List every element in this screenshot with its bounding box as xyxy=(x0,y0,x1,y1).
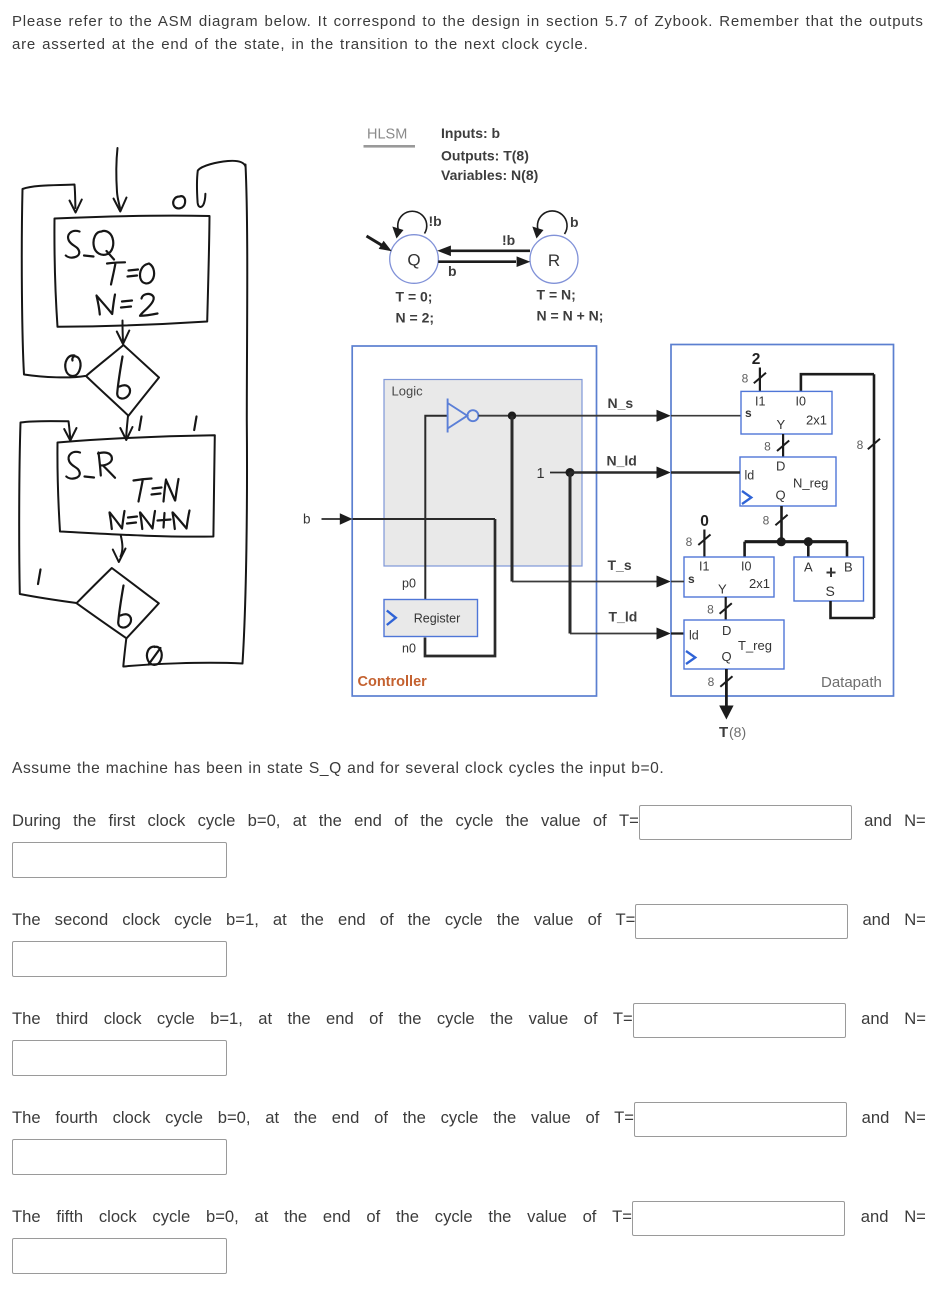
label handwritten S_Q xyxy=(66,231,80,258)
wire N_s from NOT output xyxy=(478,415,664,417)
label handwritten N=N+N xyxy=(110,511,125,529)
svg-text:Variables: N(8): Variables: N(8) xyxy=(441,167,538,183)
svg-text:R: R xyxy=(548,251,560,270)
wire bus horizontal xyxy=(745,540,847,543)
svg-text:8: 8 xyxy=(708,675,715,689)
label handwritten o top right xyxy=(173,196,185,208)
wire N_ld into N_reg ld xyxy=(671,471,740,473)
svg-text:b: b xyxy=(570,214,579,230)
svg-text:N_ld: N_ld xyxy=(607,453,637,469)
svg-text:HLSM: HLSM xyxy=(367,127,407,143)
node Controller box xyxy=(352,346,596,696)
svg-text:2x1: 2x1 xyxy=(749,576,770,591)
node state box S_R xyxy=(57,435,214,536)
wire T_s into mux2 s xyxy=(671,581,684,583)
wire bus to adder A xyxy=(807,542,810,557)
svg-text:b: b xyxy=(303,512,311,527)
wire left feedback loop diamond2 to S_R xyxy=(19,421,76,603)
label handwritten 0 bottom exit xyxy=(147,647,162,665)
node decision diamond2 b xyxy=(77,568,159,638)
wire N_s into mux1 s xyxy=(671,415,741,417)
svg-text:S: S xyxy=(826,583,835,599)
svg-text:8: 8 xyxy=(686,535,693,549)
svg-text:Outputs: T(8): Outputs: T(8) xyxy=(441,148,529,164)
svg-text:I1: I1 xyxy=(755,395,765,409)
svg-text:T = N;: T = N; xyxy=(537,287,576,303)
svg-text:p0: p0 xyxy=(402,577,416,591)
node junction bus left xyxy=(777,537,786,546)
label handwritten N=2 xyxy=(97,295,116,315)
svg-text:(8): (8) xyxy=(729,724,746,740)
svg-text:Y: Y xyxy=(718,582,727,597)
wire mux2 Y to T_reg D xyxy=(671,597,726,634)
node decision diamond1 b xyxy=(86,345,159,416)
svg-text:!b: !b xyxy=(429,213,442,229)
label handwritten 1 left of diamond2 xyxy=(38,570,41,585)
wire Q self-loop !b xyxy=(398,211,427,233)
svg-text:1: 1 xyxy=(537,466,545,482)
wire N_reg Q down to bus xyxy=(780,506,783,540)
wire S_R to diamond2 xyxy=(121,536,123,557)
wire b loop to register n0 xyxy=(425,519,495,656)
svg-text:D: D xyxy=(776,459,785,474)
svg-text:A: A xyxy=(804,560,813,575)
svg-text:I0: I0 xyxy=(741,560,751,574)
svg-text:Q: Q xyxy=(407,251,420,270)
wire initial arrow into Q xyxy=(367,236,384,246)
node Logic block xyxy=(384,380,582,567)
svg-text:Register: Register xyxy=(414,612,461,626)
node Datapath box xyxy=(671,345,894,697)
wire T_s horizontal xyxy=(512,581,664,583)
svg-text:T_s: T_s xyxy=(608,557,632,573)
wire transition R to Q !b xyxy=(451,250,531,253)
node state Register xyxy=(384,600,478,637)
svg-text:I1: I1 xyxy=(699,560,709,574)
wire N_ld horizontal xyxy=(570,471,664,474)
svg-text:ld: ld xyxy=(745,469,755,483)
svg-text:Y: Y xyxy=(777,417,786,432)
wire entry arrow into S_Q xyxy=(116,148,120,208)
svg-text:I0: I0 xyxy=(796,395,806,409)
op register T_reg xyxy=(684,620,784,669)
svg-text:ld: ld xyxy=(689,629,699,643)
svg-text:N = 2;: N = 2; xyxy=(396,309,435,325)
svg-text:Controller: Controller xyxy=(358,674,428,690)
wire bus to mux2 I0 xyxy=(743,542,746,557)
label handwritten b in diamond2 xyxy=(118,586,131,628)
wire adder S to feedback xyxy=(831,601,875,618)
svg-text:0: 0 xyxy=(700,513,709,530)
wire right tall loop diamond2-0 up into S_Q xyxy=(124,165,248,667)
svg-text:Q: Q xyxy=(776,488,786,503)
label handwritten 1 right below diamond1 xyxy=(194,417,196,431)
wire mux1 Y to N_reg D xyxy=(782,434,784,457)
op mux2 2x1 xyxy=(684,557,774,597)
svg-text:!b: !b xyxy=(502,232,515,248)
wire diamond1-1 to S_R xyxy=(126,416,128,436)
svg-text:N = N + N;: N = N + N; xyxy=(537,308,604,324)
label handwritten b in diamond1 xyxy=(117,357,130,399)
node junction N_s xyxy=(508,412,516,420)
svg-text:+: + xyxy=(826,563,837,583)
op register N_reg xyxy=(740,457,836,506)
label handwritten 1 below diamond1 xyxy=(139,417,141,431)
svg-text:8: 8 xyxy=(764,440,771,454)
wire bus to adder B xyxy=(846,542,849,557)
svg-text:N_s: N_s xyxy=(608,395,634,411)
svg-text:n0: n0 xyxy=(402,642,416,656)
svg-text:Q: Q xyxy=(722,649,732,664)
svg-text:T: T xyxy=(719,724,728,741)
op NOT gate U1 xyxy=(448,399,468,433)
wire T_reg Q output T(8) xyxy=(725,669,728,708)
svg-text:2: 2 xyxy=(752,351,761,368)
wire p0 register output to NOT input xyxy=(425,416,447,599)
wire T_ld horizontal xyxy=(570,633,664,635)
op mux1 2x1 xyxy=(741,391,832,434)
svg-text:B: B xyxy=(844,560,853,575)
svg-text:N_reg: N_reg xyxy=(793,476,828,491)
svg-text:T_ld: T_ld xyxy=(609,609,638,625)
svg-text:Inputs: b: Inputs: b xyxy=(441,125,500,141)
svg-text:T_reg: T_reg xyxy=(738,638,772,653)
label handwritten T=0 xyxy=(107,262,125,284)
wire feedback into mux1 I0 xyxy=(801,374,874,391)
node junction N_ld xyxy=(566,468,575,477)
svg-text:8: 8 xyxy=(707,603,714,617)
svg-text:T = 0;: T = 0; xyxy=(396,289,433,305)
svg-text:s: s xyxy=(688,572,695,586)
svg-text:8: 8 xyxy=(763,514,770,528)
wire left feedback loop diamond1 to S_Q xyxy=(22,185,85,378)
svg-text:Datapath: Datapath xyxy=(821,674,882,691)
wire feedback right vertical xyxy=(873,374,876,618)
node junction bus right xyxy=(804,537,813,546)
wire N_ld branch down to T_ld xyxy=(569,473,572,634)
svg-text:8: 8 xyxy=(857,438,864,452)
wire diamond2-0 exit down xyxy=(123,639,126,667)
svg-text:2x1: 2x1 xyxy=(806,413,827,428)
node state R xyxy=(530,235,578,283)
wire R self-loop b xyxy=(537,211,567,234)
wire N_s branch down to T_s xyxy=(511,416,514,582)
label handwritten T=N xyxy=(134,479,152,502)
svg-text:D: D xyxy=(722,623,731,638)
op adder xyxy=(794,557,864,601)
svg-text:s: s xyxy=(745,406,752,420)
wire transition Q to R b xyxy=(438,260,516,263)
node state Q xyxy=(390,235,439,284)
svg-text:Logic: Logic xyxy=(392,384,424,399)
node state box S_Q xyxy=(54,216,209,327)
svg-text:b: b xyxy=(448,263,457,279)
label handwritten 0 left of diamond1 xyxy=(65,355,80,376)
svg-text:8: 8 xyxy=(742,372,749,386)
wire S_Q to diamond1 xyxy=(122,321,125,341)
label handwritten S_R xyxy=(66,452,80,479)
